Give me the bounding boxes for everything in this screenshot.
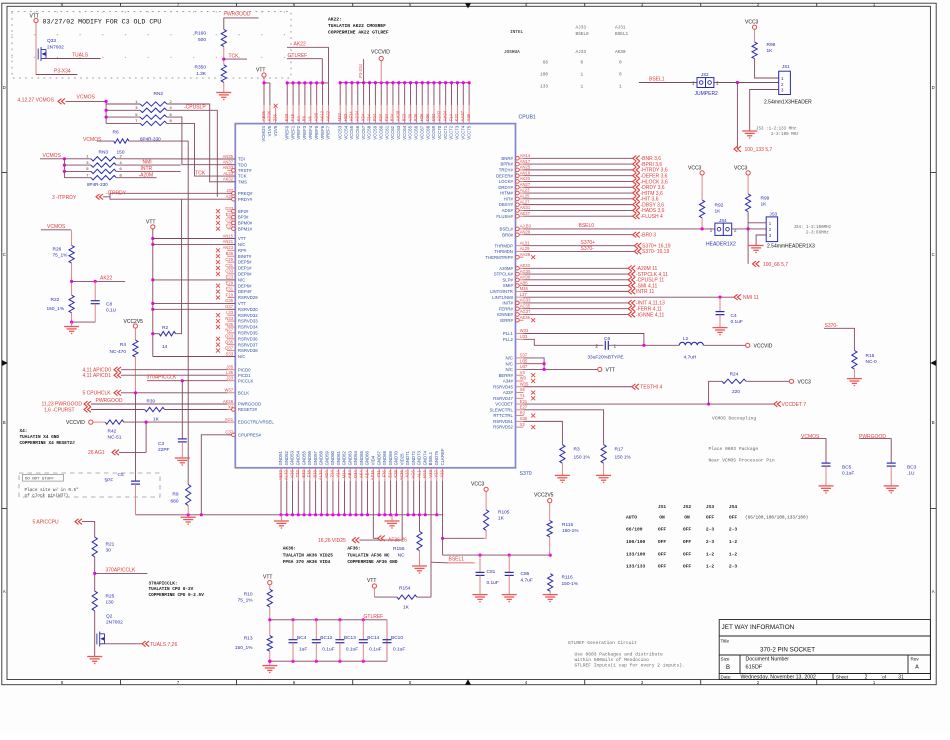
svg-text:L35: L35 bbox=[226, 370, 234, 375]
resistor R21 bbox=[92, 537, 97, 557]
svg-text:R21: R21 bbox=[106, 541, 115, 547]
ground R9 bbox=[181, 517, 196, 524]
svg-text:P3-X34: P3-X34 bbox=[358, 63, 363, 78]
svg-text:VTT: VTT bbox=[256, 67, 265, 73]
svg-text:AJ31: AJ31 bbox=[615, 26, 626, 31]
svg-text:V36: V36 bbox=[407, 113, 412, 121]
svg-text:Use 0603 Packages and distribu: Use 0603 Packages and distribute bbox=[575, 652, 663, 658]
svg-text:VCC72: VCC72 bbox=[449, 125, 454, 139]
svg-text:L2: L2 bbox=[683, 336, 689, 342]
off-page AF36 26 bbox=[378, 536, 385, 542]
wire JS3 pin3 to gnd bbox=[756, 235, 766, 246]
svg-text:R10: R10 bbox=[244, 591, 253, 597]
svg-text:AN27: AN27 bbox=[520, 182, 531, 187]
svg-text:A: A bbox=[915, 665, 919, 671]
svg-text:.1U: .1U bbox=[907, 471, 915, 477]
svg-text:AH28: AH28 bbox=[520, 252, 531, 257]
svg-text:AF36 26: AF36 26 bbox=[388, 538, 407, 544]
svg-text:GND70: GND70 bbox=[394, 450, 399, 465]
svg-text:DEP4#: DEP4# bbox=[238, 289, 252, 294]
svg-text:X33: X33 bbox=[439, 470, 444, 478]
svg-text:0.1uF: 0.1uF bbox=[487, 580, 499, 586]
svg-text:D34: D34 bbox=[353, 470, 358, 478]
net GTLREF wire bbox=[287, 58, 322, 60]
svg-text:1.3K: 1.3K bbox=[196, 71, 207, 77]
svg-text:INIT#: INIT# bbox=[502, 301, 513, 306]
svg-text:R39: R39 bbox=[147, 399, 156, 404]
svg-text:CPUPRES#: CPUPRES# bbox=[238, 432, 262, 437]
svg-text:PRDY#: PRDY# bbox=[238, 197, 253, 202]
svg-text:AG37: AG37 bbox=[520, 309, 531, 314]
svg-text:AN37: AN37 bbox=[223, 160, 234, 165]
svg-text:VREF5: VREF5 bbox=[314, 125, 319, 139]
wire VCMOS to RN2 bbox=[66, 100, 107, 102]
wire THRMDN bbox=[524, 250, 635, 252]
svg-text:GND54: GND54 bbox=[296, 450, 301, 465]
resistor R105 bbox=[484, 510, 489, 531]
svg-text:VTT: VTT bbox=[263, 574, 272, 580]
svg-text:J37: J37 bbox=[226, 188, 233, 193]
svg-text:Title: Title bbox=[721, 639, 730, 644]
svg-text:K32: K32 bbox=[454, 113, 459, 121]
svg-text:JS3: JS3 bbox=[770, 212, 778, 217]
svg-text:TCK: TCK bbox=[238, 174, 247, 179]
svg-text:JS2: JS2 bbox=[683, 504, 692, 510]
svg-text:N/C: N/C bbox=[238, 277, 245, 282]
svg-text:TUALATIN X4 GND: TUALATIN X4 GND bbox=[20, 435, 60, 440]
svg-text:VCCVID: VCCVID bbox=[754, 344, 773, 350]
svg-text:NC: NC bbox=[398, 553, 405, 559]
capacitor BC13 bbox=[339, 620, 341, 640]
resistor R154 bbox=[397, 595, 417, 599]
svg-text:1-2: 1-2 bbox=[706, 564, 715, 570]
svg-text:GND64: GND64 bbox=[353, 450, 358, 465]
svg-text:Y31: Y31 bbox=[376, 470, 381, 478]
svg-text:A34#: A34# bbox=[503, 379, 514, 384]
svg-text:N37: N37 bbox=[225, 328, 233, 333]
svg-text:LINT0/INTR: LINT0/INTR bbox=[490, 289, 513, 294]
resistor R24 bbox=[709, 381, 722, 404]
svg-text:500: 500 bbox=[198, 37, 206, 43]
svg-text:INTR 11: INTR 11 bbox=[636, 289, 654, 295]
wire 370APICCLK stub bbox=[95, 572, 148, 574]
svg-text:150 1%: 150 1% bbox=[615, 455, 632, 461]
svg-text:22PF: 22PF bbox=[158, 447, 170, 453]
svg-text:VTT: VTT bbox=[146, 219, 155, 225]
svg-text:VCC3: VCC3 bbox=[745, 19, 759, 25]
svg-text:C: C bbox=[3, 252, 6, 257]
svg-text:BSEL1: BSEL1 bbox=[615, 32, 629, 37]
svg-text:PICD1: PICD1 bbox=[238, 373, 251, 378]
wire PWRGOOD bbox=[224, 18, 259, 30]
svg-text:R98: R98 bbox=[767, 42, 776, 48]
svg-text:1K: 1K bbox=[767, 48, 774, 54]
svg-text:BINIT#: BINIT# bbox=[238, 254, 252, 259]
svg-text:-ITPRDY: -ITPRDY bbox=[106, 191, 127, 197]
svg-text:ON: ON bbox=[684, 515, 690, 521]
svg-text:AN21: AN21 bbox=[223, 239, 234, 244]
svg-text:3 -ITPRDY: 3 -ITPRDY bbox=[52, 195, 77, 201]
svg-text:VCC55: VCC55 bbox=[349, 125, 354, 139]
wire AG1 branch down bbox=[145, 422, 147, 452]
svg-text:INTR: INTR bbox=[141, 166, 153, 172]
svg-text:G37: G37 bbox=[225, 304, 234, 309]
svg-text:GND55: GND55 bbox=[301, 450, 306, 465]
svg-text:CLKREF: CLKREF bbox=[440, 448, 445, 465]
svg-text:D32: D32 bbox=[431, 113, 436, 121]
svg-text:VCC53: VCC53 bbox=[337, 125, 342, 139]
svg-text:VCMOS: VCMOS bbox=[47, 224, 66, 230]
svg-text:-BR0 3: -BR0 3 bbox=[641, 233, 657, 239]
svg-text:AD32: AD32 bbox=[437, 110, 442, 121]
svg-text:GND63: GND63 bbox=[347, 450, 352, 465]
off-page group BNR..FLUSH bbox=[524, 156, 668, 221]
wire R98 to JS1 pin1 bbox=[755, 59, 779, 78]
svg-text:C4: C4 bbox=[731, 313, 737, 319]
grid dots bbox=[11, 11, 285, 58]
svg-text:AL27: AL27 bbox=[520, 199, 530, 204]
off-page 100_66 5,7 bbox=[753, 261, 760, 267]
svg-text:VCCVID: VCCVID bbox=[371, 50, 390, 56]
svg-text:DEP1#: DEP1# bbox=[238, 266, 252, 271]
svg-text:AD36: AD36 bbox=[267, 110, 272, 121]
wire VTT to S33 bbox=[153, 356, 236, 358]
svg-text:PWRGOOD: PWRGOOD bbox=[96, 398, 123, 404]
svg-text:RSRVD34: RSRVD34 bbox=[238, 325, 258, 330]
svg-text:R6: R6 bbox=[113, 130, 119, 136]
svg-text:5 APICCPU: 5 APICCPU bbox=[33, 519, 60, 525]
svg-text:VTT: VTT bbox=[606, 368, 615, 374]
svg-text:R42: R42 bbox=[108, 428, 117, 434]
svg-text:B34: B34 bbox=[390, 113, 395, 121]
power VTT (NC tie) bbox=[598, 367, 602, 371]
net AK22 wire bbox=[287, 46, 329, 48]
svg-text:Z36: Z36 bbox=[272, 113, 277, 121]
svg-text:370APICCLK: 370APICCLK bbox=[106, 567, 136, 573]
wire RN3 row3 out bbox=[116, 170, 181, 172]
wire VTT to G37 bbox=[153, 308, 236, 310]
svg-text:N33: N33 bbox=[225, 316, 233, 321]
svg-text:4.7uF: 4.7uF bbox=[521, 578, 533, 584]
svg-text:TRDY#: TRDY# bbox=[499, 167, 514, 172]
svg-text:RSRVD33: RSRVD33 bbox=[238, 319, 258, 324]
svg-text:RSRVD52: RSRVD52 bbox=[493, 425, 513, 430]
svg-text:Z34: Z34 bbox=[330, 470, 335, 478]
svg-text:TUALS: TUALS bbox=[72, 53, 89, 59]
svg-text:GND53: GND53 bbox=[290, 450, 295, 465]
svg-text:AL29: AL29 bbox=[520, 246, 530, 251]
svg-text:A33: A33 bbox=[405, 470, 410, 478]
svg-text:Near VCMOS Processor Pin: Near VCMOS Processor Pin bbox=[709, 458, 775, 464]
svg-text:PWRGOOD: PWRGOOD bbox=[224, 12, 251, 18]
svg-text:RSRVD51: RSRVD51 bbox=[493, 419, 513, 424]
svg-text:COPPERMINE AF36 GND: COPPERMINE AF36 GND bbox=[347, 560, 397, 565]
svg-text:Place 0603 Package: Place 0603 Package bbox=[709, 446, 759, 452]
svg-text:Q33: Q33 bbox=[225, 334, 234, 339]
wire R154 to BSEL1 bbox=[417, 596, 431, 598]
svg-text:BC13: BC13 bbox=[344, 635, 356, 641]
svg-text:AL23: AL23 bbox=[520, 188, 530, 193]
svg-text:GND56: GND56 bbox=[307, 450, 312, 465]
resistor R26 bbox=[69, 245, 74, 263]
svg-text:AK20: AK20 bbox=[520, 176, 531, 181]
svg-text:220: 220 bbox=[732, 389, 740, 395]
resistor R160 bbox=[221, 29, 226, 46]
svg-text:VCC71: VCC71 bbox=[443, 125, 448, 139]
resistor R350 bbox=[221, 65, 226, 83]
svg-text:AUTO: AUTO bbox=[626, 515, 637, 521]
svg-text:S33: S33 bbox=[226, 351, 234, 356]
svg-text:NC-0: NC-0 bbox=[866, 359, 878, 365]
svg-text:AJ,B3: AJ,B3 bbox=[520, 224, 532, 229]
wire BSEL1 column bbox=[430, 562, 432, 597]
svg-text:AE35: AE35 bbox=[520, 315, 531, 320]
svg-text:AK36:: AK36: bbox=[283, 547, 296, 552]
svg-text:C37: C37 bbox=[225, 430, 233, 435]
svg-text:JS1: JS1 bbox=[658, 504, 667, 510]
svg-text:B: B bbox=[726, 665, 730, 671]
svg-text:R105: R105 bbox=[498, 509, 510, 515]
svg-text:NC-51: NC-51 bbox=[108, 434, 122, 440]
svg-text:GND65: GND65 bbox=[359, 450, 364, 465]
svg-text:M34: M34 bbox=[341, 470, 346, 479]
svg-text:DEP0#: DEP0# bbox=[238, 272, 252, 277]
svg-text:L37: L37 bbox=[520, 292, 528, 297]
svg-text:JS1: JS1 bbox=[782, 64, 790, 69]
ground bus gnd symbol middle bbox=[385, 521, 400, 528]
resistor R17 bbox=[601, 445, 606, 464]
wire R4 down bbox=[134, 357, 136, 393]
svg-text:DBSY#: DBSY# bbox=[499, 202, 514, 207]
svg-text:-CPUSLP: -CPUSLP bbox=[184, 105, 206, 111]
svg-text:2-3: 2-3 bbox=[706, 539, 715, 545]
svg-text:0.1uF: 0.1uF bbox=[369, 646, 381, 652]
svg-text:AG1: AG1 bbox=[225, 417, 234, 422]
svg-text:(66/100,100/100,133/100): (66/100,100/100,133/100) bbox=[745, 516, 808, 521]
svg-text:AN17: AN17 bbox=[520, 159, 531, 164]
svg-text:150-1%: 150-1% bbox=[562, 528, 579, 534]
resistor R15 bbox=[852, 350, 857, 369]
svg-text:B: B bbox=[3, 420, 6, 425]
svg-text:C5: C5 bbox=[118, 472, 124, 478]
capacitor BC5 bbox=[801, 439, 826, 464]
svg-text:Sheet: Sheet bbox=[836, 675, 849, 680]
svg-text:AL25: AL25 bbox=[520, 194, 530, 199]
svg-text:A32#: A32# bbox=[503, 390, 514, 395]
svg-text:OFF: OFF bbox=[658, 539, 667, 545]
svg-text:VCCDET 7: VCCDET 7 bbox=[782, 402, 807, 408]
resistor R98 bbox=[752, 42, 757, 59]
svg-text:of clock pin(W37): of clock pin(W37) bbox=[25, 494, 69, 499]
svg-text:BSEL1: BSEL1 bbox=[428, 451, 433, 465]
wire PICCLK bbox=[147, 380, 227, 382]
svg-text:2N7002: 2N7002 bbox=[47, 45, 64, 51]
svg-text:SLEWCTRL: SLEWCTRL bbox=[489, 407, 513, 412]
svg-text:03/27/02 MODIFY FOR C3 OLD CPU: 03/27/02 MODIFY FOR C3 OLD CPU bbox=[43, 19, 162, 26]
svg-text:COPPERMINE CPU 0-2.5V: COPPERMINE CPU 0-2.5V bbox=[149, 593, 205, 598]
resistor R3 bbox=[560, 445, 565, 464]
svg-text:JS2: JS2 bbox=[701, 72, 709, 77]
svg-text:AN23: AN23 bbox=[223, 245, 234, 250]
svg-text:VID25: VID25 bbox=[399, 453, 404, 466]
svg-text:M32: M32 bbox=[337, 112, 342, 121]
svg-text:VCC67: VCC67 bbox=[419, 125, 424, 139]
svg-text:C: C bbox=[932, 252, 935, 257]
svg-text:VREF0: VREF0 bbox=[284, 125, 289, 139]
svg-text:X34: X34 bbox=[360, 113, 365, 121]
resistor R9 bbox=[186, 485, 191, 506]
svg-text:GND75: GND75 bbox=[434, 450, 439, 465]
svg-text:AK22:: AK22: bbox=[328, 17, 342, 23]
svg-text:2.54mmHEADER1X3: 2.54mmHEADER1X3 bbox=[767, 244, 815, 250]
svg-text:OFF: OFF bbox=[729, 515, 738, 521]
svg-text:AH24: AH24 bbox=[442, 110, 447, 121]
svg-text:Q33: Q33 bbox=[47, 38, 56, 44]
wire PLL2 bbox=[524, 339, 604, 345]
svg-text:150 1%: 150 1% bbox=[574, 455, 591, 461]
wire RN3 row1 out bbox=[116, 158, 235, 160]
svg-text:THRMDP: THRMDP bbox=[495, 243, 514, 248]
net P3-X34 riser bbox=[363, 59, 365, 83]
svg-text:133: 133 bbox=[540, 84, 548, 89]
svg-text:AG33: AG33 bbox=[520, 298, 531, 303]
svg-text:GND58: GND58 bbox=[319, 450, 324, 465]
svg-text:G35: G35 bbox=[225, 298, 234, 303]
svg-text:RTTCTRL: RTTCTRL bbox=[493, 413, 513, 418]
svg-text:BNR#: BNR# bbox=[501, 156, 513, 161]
svg-text:TDO: TDO bbox=[238, 162, 248, 167]
svg-text:DEP5#: DEP5# bbox=[238, 260, 252, 265]
svg-text:BERR#: BERR# bbox=[499, 373, 514, 378]
svg-text:D36: D36 bbox=[425, 113, 430, 121]
svg-text:370-2 PIN SOCKET: 370-2 PIN SOCKET bbox=[760, 647, 815, 654]
svg-text:VCC73: VCC73 bbox=[455, 125, 460, 139]
wire R26-R22 bbox=[71, 263, 73, 295]
svg-text:VCCDET: VCCDET bbox=[495, 402, 513, 407]
svg-text:N/C: N/C bbox=[505, 356, 512, 361]
svg-text:R92: R92 bbox=[715, 202, 724, 208]
svg-text:W35: W35 bbox=[520, 381, 529, 386]
svg-text:M36: M36 bbox=[520, 286, 529, 291]
svg-text:R9: R9 bbox=[172, 491, 178, 497]
power VCCVID (right) bbox=[746, 343, 750, 347]
svg-text:VREF1: VREF1 bbox=[290, 125, 295, 139]
off-page -BR0 3 bbox=[524, 234, 633, 236]
svg-text:ADS#: ADS# bbox=[502, 208, 514, 213]
svg-text:J35: J35 bbox=[226, 365, 233, 370]
svg-text:S370: S370 bbox=[520, 471, 532, 477]
svg-text:VREF4: VREF4 bbox=[308, 125, 313, 139]
svg-text:F36: F36 bbox=[382, 470, 387, 478]
svg-text:R3: R3 bbox=[574, 447, 580, 453]
svg-text:VCC3: VCC3 bbox=[471, 482, 485, 488]
svg-text:AH14: AH14 bbox=[520, 153, 531, 158]
svg-text:2.54mm1X3HEADER: 2.54mm1X3HEADER bbox=[764, 99, 812, 105]
ground C86 bbox=[502, 595, 517, 602]
svg-text:GND66: GND66 bbox=[365, 450, 370, 465]
svg-text:JS3: JS3 bbox=[706, 504, 715, 510]
svg-text:AD4: AD4 bbox=[324, 470, 329, 479]
svg-text:OFF: OFF bbox=[706, 515, 715, 521]
svg-text:VCC3: VCC3 bbox=[798, 380, 812, 386]
svg-text:0: 0 bbox=[581, 60, 584, 65]
svg-text:-A20M: -A20M bbox=[139, 172, 154, 178]
capacitor C5 bbox=[135, 393, 137, 481]
svg-text:TUALS 7,26: TUALS 7,26 bbox=[150, 642, 177, 648]
svg-text:VCC3: VCC3 bbox=[734, 165, 748, 171]
border center arrows bbox=[465, 3, 471, 8]
wire JS4 pin2 to JS3 bbox=[732, 228, 767, 230]
svg-text:BR0#: BR0# bbox=[502, 232, 513, 237]
wire NMI net bbox=[524, 296, 735, 298]
svg-text:75_1%: 75_1% bbox=[53, 252, 69, 258]
resistor R115 bbox=[547, 521, 552, 537]
svg-text:1uF: 1uF bbox=[299, 646, 307, 652]
capacitor BC4 bbox=[292, 620, 294, 640]
svg-text:Y34: Y34 bbox=[336, 470, 341, 478]
svg-text:C29: C29 bbox=[225, 257, 233, 262]
svg-text:E34: E34 bbox=[387, 470, 392, 478]
ground R22/C8 bbox=[71, 322, 73, 326]
svg-text:GND72: GND72 bbox=[411, 450, 416, 465]
svg-text:C81: C81 bbox=[487, 569, 496, 575]
svg-text:A35: A35 bbox=[226, 194, 234, 199]
svg-text:Y37: Y37 bbox=[434, 470, 439, 478]
svg-text:N/C: N/C bbox=[505, 367, 512, 372]
svg-text:PICCLK: PICCLK bbox=[238, 378, 254, 383]
svg-text:S370- 16,19: S370- 16,19 bbox=[642, 249, 669, 255]
svg-text:S37: S37 bbox=[520, 353, 528, 358]
svg-text:SMI#: SMI# bbox=[503, 283, 514, 288]
svg-text:C8: C8 bbox=[106, 301, 112, 307]
wire PRDY bbox=[110, 197, 232, 199]
svg-text:RSRVD29: RSRVD29 bbox=[238, 295, 258, 300]
title block bbox=[719, 620, 930, 680]
svg-text:F14: F14 bbox=[448, 113, 453, 121]
svg-text:R350: R350 bbox=[195, 65, 207, 71]
svg-text:30: 30 bbox=[106, 547, 112, 553]
svg-text:1-2: 1-2 bbox=[729, 539, 738, 545]
svg-text:VREF2: VREF2 bbox=[296, 125, 301, 139]
wire CPUPRES# to gnd bus bbox=[201, 435, 231, 515]
svg-text:PREQ#: PREQ# bbox=[238, 191, 253, 196]
svg-text:IGNNE#: IGNNE# bbox=[497, 312, 514, 317]
resistor R10 bbox=[267, 589, 272, 607]
off-page NMI 11 bbox=[734, 294, 741, 300]
ground R3 bbox=[555, 475, 570, 482]
svg-text:VCC74: VCC74 bbox=[460, 125, 465, 139]
svg-text:0: 0 bbox=[619, 73, 622, 78]
wire VTT to AN21 bbox=[153, 243, 236, 245]
svg-text:130: 130 bbox=[106, 599, 114, 605]
svg-text:BPM0#: BPM0# bbox=[238, 221, 253, 226]
svg-text:VCC68: VCC68 bbox=[425, 125, 430, 139]
resistor R22 bbox=[69, 295, 74, 313]
svg-text:DRDY#: DRDY# bbox=[498, 185, 513, 190]
svg-text:VCC63: VCC63 bbox=[396, 125, 401, 139]
svg-text:VCC58: VCC58 bbox=[367, 125, 372, 139]
svg-text:E35: E35 bbox=[226, 224, 234, 229]
svg-text:V4: V4 bbox=[520, 370, 526, 375]
capacitor BC3 bbox=[859, 439, 891, 464]
svg-text:AF36: AF36 bbox=[370, 470, 375, 481]
resistor R155 bbox=[417, 531, 422, 550]
svg-text:AN15: AN15 bbox=[223, 233, 234, 238]
svg-text:OFF: OFF bbox=[683, 527, 692, 533]
svg-text:133/133: 133/133 bbox=[626, 564, 646, 570]
svg-text:R17: R17 bbox=[615, 447, 624, 453]
svg-text:COPPERMINE X4 RESET2#: COPPERMINE X4 RESET2# bbox=[20, 441, 76, 446]
